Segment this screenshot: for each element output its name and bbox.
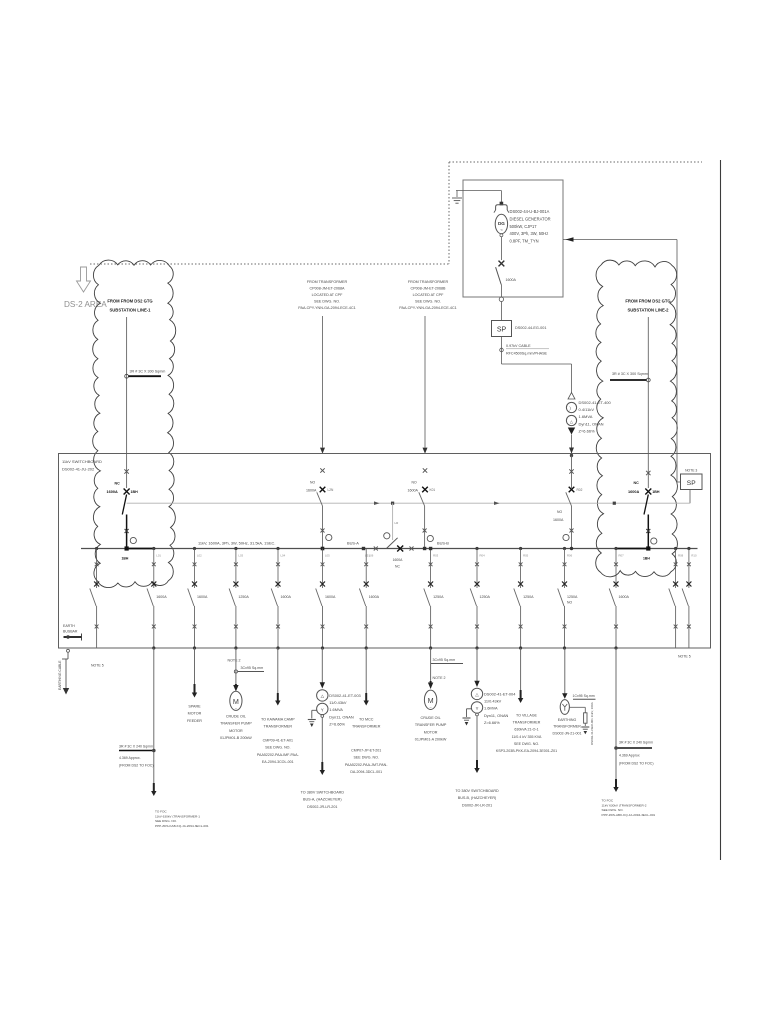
svg-text:M: M [233,697,239,706]
svg-text:L02: L02 [197,554,202,558]
junction incomer LINE-1 to bus [125,546,129,550]
switchboard enclosure 11kV [59,454,711,649]
wire feeder at x=675.6 [674,547,677,550]
svg-text:0.8PF, TM_TYN: 0.8PF, TM_TYN [510,239,539,244]
svg-text:R08: R08 [678,554,684,558]
svg-text:SPARE: SPARE [188,705,201,709]
junction SP2 [681,474,703,490]
svg-text:DS002-44-U-BJ-001A: DS002-44-U-BJ-001A [510,209,550,214]
svg-text:FROM FROM DS2 GTG: FROM FROM DS2 GTG [625,299,670,304]
svg-text:DS002-44-EG-001: DS002-44-EG-001 [515,326,546,330]
svg-text:PPP-ZDS-ABK-KQ-JA-2094-3ECL-00: PPP-ZDS-ABK-KQ-JA-2094-3ECL-001 [602,813,656,817]
svg-text:01JPM01-B 200kW: 01JPM01-B 200kW [220,736,252,740]
svg-text:EA-2094-3COL-001: EA-2094-3COL-001 [262,760,294,764]
wire feeder at x=477.0 [475,547,478,550]
disconnect feeder [316,589,322,607]
breaker feeder [193,562,197,566]
svg-text:MOTOR: MOTOR [188,712,202,716]
junction riser B bus [423,547,426,550]
wire feeder at x=153.8 [152,547,155,550]
svg-text:M: M [428,696,434,705]
diesel generator enclosure [463,180,563,297]
svg-text:DA-2094-3DCL-001: DA-2094-3DCL-001 [350,770,382,774]
svg-text:01JPM01-A 200kW: 01JPM01-A 200kW [415,738,447,742]
svg-text:1250A: 1250A [523,595,534,599]
wire riser A [322,316,324,448]
svg-text:NOTE 2: NOTE 2 [228,659,241,663]
svg-text:R04: R04 [480,554,486,558]
wire ET-004 secondary [476,716,478,760]
node box exit bushing [499,297,503,301]
breaker bus tie [397,546,403,552]
svg-text:DS002-41-JU-202: DS002-41-JU-202 [62,467,95,472]
svg-text:1250A: 1250A [238,595,249,599]
svg-text:DS002-41-ET-400: DS002-41-ET-400 [579,400,612,405]
svg-text:L04: L04 [281,554,286,558]
junction incomer LINE-2 to bus [646,546,650,550]
svg-text:Y: Y [321,707,324,712]
disconnect feeder [424,589,430,607]
svg-text:EARTHING: EARTHING [558,718,577,722]
svg-text:PAA-CPY-YNN-GA-2094-ECE-4C1: PAA-CPY-YNN-GA-2094-ECE-4C1 [298,306,355,310]
svg-text:1600A: 1600A [107,490,118,494]
svg-text:TRANSFER PUMP: TRANSFER PUMP [220,722,252,726]
wire feeder at x=278.0 [276,547,279,550]
busbar 11kV [81,548,698,550]
load arrow spare motor feeder [194,684,196,693]
svg-text:SUBSTATION LINE-1: SUBSTATION LINE-1 [109,308,151,313]
svg-text:3Cx95 Sq.mm: 3Cx95 Sq.mm [241,666,264,670]
breaker feeder [234,562,238,566]
breaker feeder [519,562,523,566]
load arrow to 380V bus A [321,762,323,771]
svg-text:KSP3-203B-PKK-EA-2094-3E001-Z0: KSP3-203B-PKK-EA-2094-3E001-Z01 [496,749,557,753]
svg-text:TRANSFORMER: TRANSFORMER [513,721,541,725]
svg-text:PAA-CPY-YNN-GA-2094-ECE-4C1: PAA-CPY-YNN-GA-2094-ECE-4C1 [399,306,456,310]
svg-text:TRANSFORMER: TRANSFORMER [264,725,293,729]
svg-text:SEE DWG. NO.: SEE DWG. NO. [602,808,624,812]
svg-text:K01: K01 [430,488,436,492]
svg-text:500kW, CJP17: 500kW, CJP17 [510,224,538,229]
svg-text:1BH: 1BH [122,557,129,561]
svg-text:TRANSFER PUMP: TRANSFER PUMP [415,723,447,727]
svg-text:4.369 Approx.: 4.369 Approx. [119,756,141,760]
svg-text:NOTE 5: NOTE 5 [91,664,104,668]
wire ET-003 secondary [321,717,323,762]
svg-text:BUS-A, (HAZCHEYER): BUS-A, (HAZCHEYER) [303,798,342,802]
svg-text:(FROM DS2 TO FOC): (FROM DS2 TO FOC) [119,764,153,768]
wire feeder L05 to ET-003 [321,648,323,683]
meter bus tie [384,533,390,539]
svg-text:RFC4500Sq.mm/PHASE: RFC4500Sq.mm/PHASE [506,352,548,356]
junction riser A bus [321,547,325,551]
wire feeder R06 to earthing transformer [564,648,566,694]
svg-text:3R # 3C X 300 Sqmm: 3R # 3C X 300 Sqmm [130,370,166,374]
svg-text:1600A: 1600A [281,595,292,599]
wire feeder L04 [277,648,279,695]
disconnect feeder [669,589,675,607]
wire feeder at x=520.6 [519,547,522,550]
svg-text:1600A: 1600A [553,518,564,522]
svg-text:11/0.4 kV 355 KVA: 11/0.4 kV 355 KVA [512,735,542,739]
svg-text:1250A: 1250A [433,595,444,599]
svg-text:3Cx95 Sq.mm: 3Cx95 Sq.mm [433,658,456,662]
disconnect feeder [147,589,153,607]
meter riser A [326,534,332,540]
svg-text:NC: NC [115,482,121,486]
ground ET-003 [312,709,317,711]
load arrow kawama [277,693,279,701]
breaker feeder [429,562,433,566]
disconnect feeder [90,589,96,607]
disconnect feeder [514,589,520,607]
breaker bus tie marks [374,547,378,551]
svg-text:NO: NO [557,510,562,514]
svg-text:CRUDE OIL: CRUDE OIL [226,715,246,719]
disconnect feeder [470,589,476,607]
svg-text:3R # 3C X 240 Sqmm: 3R # 3C X 240 Sqmm [119,745,153,749]
svg-text:DS002-JN-21-001: DS002-JN-21-001 [553,731,582,735]
wire DG box to bus line [563,239,677,241]
svg-text:TRANSFORMER: TRANSFORMER [553,725,581,729]
svg-text:R03: R03 [433,554,439,558]
wire drawing border right [720,160,722,860]
svg-text:NC: NC [634,481,640,485]
wire feeder L06 [365,648,367,695]
svg-text:1600A: 1600A [197,595,208,599]
breaker feeder [152,562,156,566]
wire to SP [500,302,502,321]
svg-text:11kV, 1600A, 3Ph, 3W, 50Hz, 31: 11kV, 1600A, 3Ph, 3W, 50Hz, 31.5kA, 1SEC… [198,541,275,546]
incomer LINE-1 breaker [124,469,128,473]
svg-text:TO FOC: TO FOC [155,810,167,814]
transformer ET-004 [471,688,482,699]
load arrow to 380V bus B [476,760,478,769]
svg-text:FROM TRANSFORMER: FROM TRANSFORMER [408,280,449,284]
svg-text:CP008-JM-ET-2068B: CP008-JM-ET-2068B [410,287,446,291]
wire feeder at x=616.0 [614,547,617,550]
load arrow TO FOC right [615,779,617,788]
svg-text:SEE DWG. NO.: SEE DWG. NO. [514,742,539,746]
disconnect feeder [609,589,615,607]
breaker feeder [614,562,618,566]
disconnect feeder [682,589,688,607]
svg-text:0.4/11kV: 0.4/11kV [579,407,595,412]
motor M crude oil A [424,690,436,709]
wire feeder R04 to ET-004 [476,648,478,681]
svg-text:1600A: 1600A [156,595,167,599]
svg-text:Dyn11, ONAN: Dyn11, ONAN [579,421,604,426]
svg-text:(FROM DS2 TO FOC): (FROM DS2 TO FOC) [619,762,653,766]
wire SP2 to tie line [689,490,691,504]
ground DG [452,198,462,203]
svg-text:CMP09-41-ET-A01: CMP09-41-ET-A01 [263,739,293,743]
breaker feeder [95,562,99,566]
svg-text:EARTH: EARTH [63,624,75,628]
meter incomer LINE-1 [130,537,136,543]
svg-text:1600A: 1600A [325,595,336,599]
svg-text:1.6MVA: 1.6MVA [484,706,498,711]
svg-text:TO 380V SWITCHBOARD: TO 380V SWITCHBOARD [301,791,345,795]
svg-text:1600A: 1600A [506,278,517,282]
disconnect feeder [229,589,235,607]
breaker riser C [569,487,575,493]
svg-text:SEE DWG. NO.: SEE DWG. NO. [155,819,177,823]
wire feeder at x=96.6 [95,547,98,550]
svg-text:3R # 3C X 240 Sqmm: 3R # 3C X 240 Sqmm [619,741,653,745]
svg-text:BUSBAR: BUSBAR [63,630,78,634]
svg-text:4.369 Approx: 4.369 Approx [619,754,640,758]
svg-text:3R # 3C X 300 Sqmm: 3R # 3C X 300 Sqmm [612,372,648,376]
wire feeder R05 [520,648,522,692]
disconnect feeder [188,589,194,607]
svg-text:〉: 〉 [569,406,573,411]
node utility cloud LINE-2 [596,260,678,577]
breaker feeder [276,562,280,566]
breaker feeder [475,562,479,566]
svg-text:DS002-41-ET-004: DS002-41-ET-004 [484,692,516,697]
meter riser B [427,535,433,541]
svg-text:R07: R07 [619,554,625,558]
svg-text:NO: NO [310,481,315,485]
svg-text:1.6MVA: 1.6MVA [329,707,343,712]
breaker DG [499,261,505,267]
svg-text:NOTE 5: NOTE 5 [678,655,691,659]
svg-text:0.97kV CABLE: 0.97kV CABLE [506,344,531,348]
svg-text:TO KAWAMA CAMP: TO KAWAMA CAMP [261,718,295,722]
wire feeder L01 to FOC [153,648,155,783]
svg-text:MOTOR: MOTOR [229,729,243,733]
svg-text:R05: R05 [523,554,529,558]
svg-text:400V, 3Ph, 3W, 50Hz: 400V, 3Ph, 3W, 50Hz [510,231,549,236]
svg-text:1BH: 1BH [652,490,660,494]
wire dashed boundary top [90,162,702,264]
load arrow motor B [233,685,238,692]
load arrow motor A [430,681,432,684]
junction SP1 [492,321,512,337]
disconnect feeder [359,589,365,607]
disconnect incomer LINE-2 [644,495,648,515]
svg-text:DS002-41-NER-001 11kV, 100A: DS002-41-NER-001 11kV, 100A [590,702,594,745]
svg-text:FROM TRANSFORMER: FROM TRANSFORMER [307,280,348,284]
svg-text:EARTHING CABLE: EARTHING CABLE [58,660,62,690]
meter incomer LINE-2 [651,538,657,544]
svg-text:DG: DG [498,221,505,226]
svg-text:DIESEL GENERATOR: DIESEL GENERATOR [510,216,551,221]
transformer ET-003 [317,690,328,701]
wire earthing cable [67,649,70,652]
svg-text:~: ~ [500,228,503,233]
wire LINE-1 riser [126,317,128,488]
svg-text:R10: R10 [691,554,697,558]
svg-text:1600A: 1600A [628,490,639,494]
ground ET-004 [467,708,472,710]
svg-text:PPP-ZDS-KAB-KQ-JA-2094-3ECL-00: PPP-ZDS-KAB-KQ-JA-2094-3ECL-001 [155,824,209,828]
wire DG neutral to ground [456,190,501,192]
wire NER branch [569,706,585,708]
svg-text:LOCATED AT CPF: LOCATED AT CPF [312,293,343,297]
wire riser C entering switchboard [570,454,573,457]
disconnect feeder [558,589,564,607]
breaker riser B [423,468,427,472]
svg-text:FEEDER: FEEDER [187,719,202,723]
disconnect incomer LINE-1 [122,495,126,515]
svg-text:CP008-JM-ET-2068A: CP008-JM-ET-2068A [309,287,345,291]
breaker feeder [687,562,691,566]
svg-text:1BH: 1BH [643,557,650,561]
svg-text:DS002-JR-LR-201: DS002-JR-LR-201 [307,805,337,809]
svg-text:MOTOR: MOTOR [424,730,438,734]
svg-text:DS002-41-ET-003: DS002-41-ET-003 [329,693,360,698]
svg-text:1Cx95 Sq.mm: 1Cx95 Sq.mm [573,694,595,698]
svg-text:SEE DWG. NO.: SEE DWG. NO. [314,300,340,304]
svg-text:CRUDE OIL: CRUDE OIL [421,716,441,720]
disconnect feeder [271,589,277,607]
wire SP to transformer [501,337,503,365]
wire interlock drop [392,503,394,540]
svg-text:Dyn11, ONAN: Dyn11, ONAN [329,714,354,719]
wire feeder at x=194.5 [193,547,196,550]
svg-text:1250A: 1250A [480,595,491,599]
svg-text:1.6MVA: 1.6MVA [579,414,593,419]
svg-text:1BH: 1BH [131,490,139,494]
svg-text:11/0.43kV: 11/0.43kV [329,700,347,705]
svg-text:1600A: 1600A [306,489,317,493]
svg-text:NC: NC [395,565,400,569]
svg-text:DS-2 AREA: DS-2 AREA [64,300,107,309]
svg-text:11/0.43kV: 11/0.43kV [484,699,502,704]
svg-text:Z=6.66%: Z=6.66% [484,720,500,725]
svg-text:TRANSFORMER: TRANSFORMER [352,725,381,729]
wire feeder at x=688.9 [687,547,690,550]
ground earthing cable [63,688,69,695]
svg-text:NO: NO [412,481,417,485]
svg-text:FROM FROM DS2 GTG: FROM FROM DS2 GTG [107,299,152,304]
disconnect riser A [317,492,323,506]
svg-text:SUBSTATION LINE-2: SUBSTATION LINE-2 [627,308,669,313]
svg-text:DS002-JR-LR-201: DS002-JR-LR-201 [462,803,492,807]
svg-text:L05: L05 [325,554,330,558]
svg-text:TO VILLAGE: TO VILLAGE [516,714,538,718]
svg-text:1600A: 1600A [393,558,404,562]
earthing transformer [560,700,569,715]
svg-text:NOTE 2: NOTE 2 [433,676,446,680]
resistor NER [584,713,587,723]
breaker riser A [320,468,324,472]
svg-text:TO 380V SWITCHBOARD: TO 380V SWITCHBOARD [455,789,499,793]
svg-text:L06: L06 [369,554,374,558]
svg-text:Z=6.66%: Z=6.66% [579,428,596,433]
svg-text:TO FOC: TO FOC [602,799,614,803]
svg-text:1250A: 1250A [567,595,578,599]
svg-text:NOTE 3: NOTE 3 [685,469,697,473]
svg-text:R06: R06 [567,554,573,558]
svg-text:L03: L03 [238,554,243,558]
svg-text:SEE DWG. NO.: SEE DWG. NO. [265,746,290,750]
svg-text:BUS-B: BUS-B [437,541,449,546]
svg-text:SP: SP [497,327,507,334]
node DS-2 AREA arrow [77,267,91,292]
wire feeder at x=564.5 [563,547,566,550]
wire DG feeder [500,237,502,260]
svg-text:SP: SP [687,480,696,487]
svg-text:BUS-B, (HAZCHEYER): BUS-B, (HAZCHEYER) [458,796,497,800]
svg-text:R02: R02 [577,488,583,492]
transformer ET-400 [568,393,575,400]
svg-text:11kV SWITCHBOARD: 11kV SWITCHBOARD [62,459,102,464]
node utility cloud LINE-1 [93,260,176,588]
breaker feeder [321,562,325,566]
svg-text:CMP07-JP-ET-201: CMP07-JP-ET-201 [351,749,381,753]
disconnect riser C [566,492,572,506]
disconnect bus tie blade [386,538,397,549]
wire feeder R07 to FOC [615,648,617,779]
svg-text:L01: L01 [156,554,161,558]
svg-text:PAA52202-PAA-IMF-PAA-: PAA52202-PAA-IMF-PAA- [257,753,300,757]
breaker feeder [364,562,368,566]
generator DG [495,214,507,233]
svg-text:1600A: 1600A [369,595,380,599]
wire interlock tie [127,502,690,504]
load arrow TO FOC left [153,783,155,792]
wire ET-400 to switchboard [571,435,573,454]
wire feeder at x=235.9 [234,547,237,550]
svg-text:SEE DWG. NO.: SEE DWG. NO. [415,300,441,304]
svg-text:TO MCC: TO MCC [359,718,374,722]
svg-text:1600A: 1600A [619,595,630,599]
svg-text:Y: Y [476,706,479,711]
svg-text:630kVA 21-O-1: 630kVA 21-O-1 [514,728,538,732]
svg-text:11kV 630kV (TRANSFORMER-1: 11kV 630kV (TRANSFORMER-1 [155,814,200,818]
breaker feeder [563,562,567,566]
wire feeder L02 spare [194,648,196,684]
wire LINE-2 riser [647,317,649,488]
svg-text:L2N: L2N [328,488,335,492]
load arrow MCC [365,693,367,701]
meter riser C [563,534,569,540]
incomer LINE-2 breaker [646,471,650,475]
svg-text:PAA52202-PAA-JMT-PAN-: PAA52202-PAA-JMT-PAN- [345,763,388,767]
motor M crude oil B [230,691,242,710]
svg-text:1600A: 1600A [408,489,419,493]
breaker feeder [674,562,678,566]
node DG drawout bracket [500,202,504,206]
svg-text:11kV 630kV (TRANSFORMER-2: 11kV 630kV (TRANSFORMER-2 [602,803,647,807]
load arrow village [520,690,522,699]
svg-text:NO: NO [567,601,572,605]
disconnect DG 1600A [496,267,502,284]
svg-text:Dyn11, ONAN: Dyn11, ONAN [484,713,509,718]
wire riser B [424,316,426,448]
svg-text:BUS-A: BUS-A [347,541,359,546]
svg-text:LOCATED AT CPF: LOCATED AT CPF [413,293,444,297]
ground NER [581,726,589,728]
svg-text:SEE DWG. NO.: SEE DWG. NO. [354,756,379,760]
junction bus tie left [362,547,365,550]
disconnect riser B [419,492,425,506]
svg-text:Z=6.66%: Z=6.66% [329,721,345,726]
